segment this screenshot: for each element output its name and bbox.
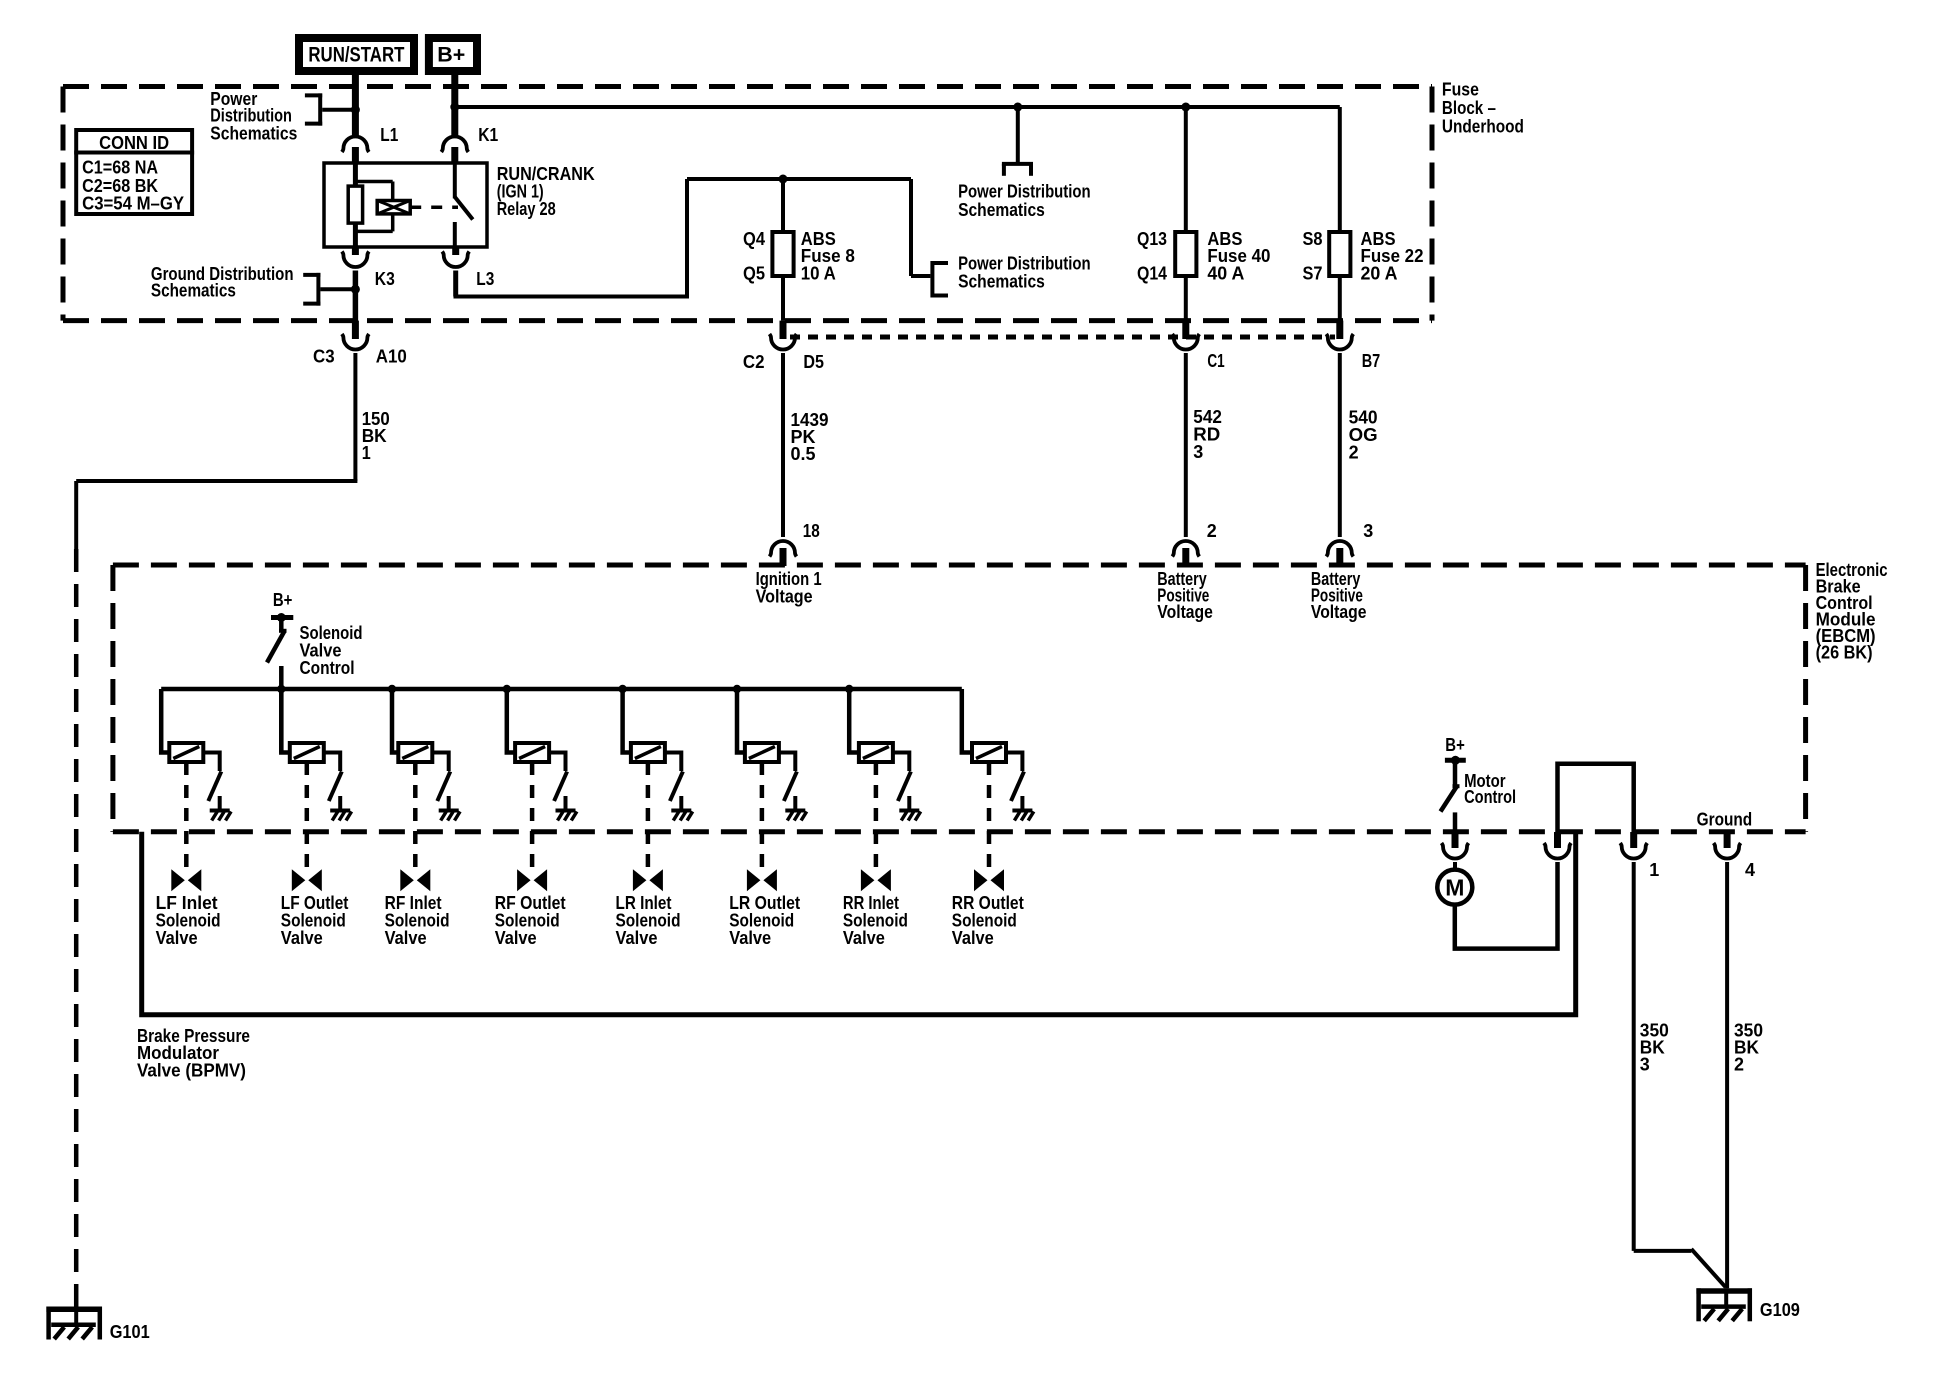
- wire dashed driver to LR-Outlet valve: [760, 762, 765, 869]
- svg-text:3: 3: [1363, 520, 1373, 541]
- node Battery Positive Voltage (pin 3): [1311, 568, 1367, 622]
- relay coil (box with X): [377, 201, 410, 214]
- wire circuit 540 OG 2: [1340, 353, 1378, 537]
- node bus junction x849: [845, 685, 853, 693]
- svg-text:2: 2: [1349, 442, 1359, 463]
- chassis ground LF-Outlet: [330, 796, 351, 821]
- svg-text:Voltage: Voltage: [1157, 601, 1213, 622]
- switch LR-Inlet driver to ground: [665, 753, 683, 802]
- svg-text:Schematics: Schematics: [151, 279, 236, 300]
- wire feed LF-Inlet driver: [161, 689, 169, 753]
- wire switch to bus: [279, 666, 284, 753]
- valve LR-Outlet solenoid valve symbol: [747, 869, 777, 891]
- svg-text:Relay 28: Relay 28: [497, 198, 556, 219]
- wire RUN/START to L1: [352, 75, 359, 136]
- svg-text:4: 4: [1745, 859, 1756, 880]
- svg-text:Schematics: Schematics: [210, 122, 297, 143]
- svg-text:G101: G101: [110, 1321, 150, 1342]
- svg-text:B+: B+: [273, 589, 293, 610]
- switch RR-Inlet driver to ground: [893, 753, 911, 802]
- valve LF-Inlet solenoid valve symbol: [171, 869, 201, 891]
- wire fuse22 to B7: [1338, 276, 1342, 321]
- svg-text:20 A: 20 A: [1361, 262, 1398, 283]
- node bus junction x506: [503, 685, 511, 693]
- connector EBCM pin 1: [1620, 832, 1659, 880]
- wire dashed driver to LF-Outlet valve: [305, 762, 310, 869]
- chassis ground LR-Outlet: [785, 796, 806, 821]
- switch RR-Outlet driver to ground: [1006, 753, 1024, 802]
- valve RR-Inlet solenoid valve symbol: [861, 869, 891, 891]
- wire dashed driver to RR-Outlet valve: [987, 762, 992, 869]
- fuse block label: [1442, 78, 1524, 136]
- svg-text:L1: L1: [380, 124, 398, 145]
- switch motor control: [1441, 763, 1517, 812]
- wire fuse40 to C1: [1184, 276, 1188, 321]
- wire dashed driver to RF-Outlet valve: [530, 762, 535, 869]
- node bus junction x281: [277, 685, 285, 693]
- svg-text:L3: L3: [476, 268, 494, 289]
- svg-text:B+: B+: [437, 44, 465, 67]
- relay switch contact: [455, 163, 473, 247]
- svg-text:Ground: Ground: [1697, 809, 1753, 830]
- connector L1: [342, 124, 398, 163]
- wire feed RR-Outlet driver: [962, 689, 972, 753]
- svg-text:C3=54 M–GY: C3=54 M–GY: [82, 193, 185, 214]
- svg-text:Voltage: Voltage: [756, 585, 813, 606]
- svg-text:1: 1: [1649, 859, 1659, 880]
- wire EBCM internal link motor return to pin 1: [1558, 764, 1634, 832]
- wire circuit 350 BK 2: [1727, 862, 1763, 1288]
- svg-text:40 A: 40 A: [1207, 262, 1244, 283]
- RUN/START feed box: [299, 38, 414, 71]
- svg-text:Underhood: Underhood: [1442, 115, 1524, 136]
- driver RR-Outlet solenoid (box with diagonal): [972, 743, 1006, 762]
- svg-text:10 A: 10 A: [801, 262, 836, 283]
- node Battery Positive Voltage (pin 2): [1157, 568, 1213, 622]
- svg-text:(26 BK): (26 BK): [1816, 641, 1873, 662]
- svg-text:C1: C1: [1207, 350, 1224, 371]
- wire feed RR-Inlet driver: [849, 689, 859, 753]
- B+ feed box: [429, 38, 477, 71]
- valve RF-Outlet solenoid valve symbol: [517, 869, 547, 891]
- relay label: [497, 163, 596, 219]
- connector EBCM pin 2: [1172, 520, 1216, 566]
- label RR-Outlet solenoid valve: [952, 892, 1024, 948]
- wire K3 to C3: [353, 271, 359, 340]
- wire feed LF-Outlet driver: [281, 689, 290, 753]
- wire feed LR-Inlet driver: [623, 689, 631, 753]
- wire motor return: [1455, 862, 1558, 949]
- svg-text:Valve: Valve: [385, 927, 427, 948]
- wire L3 to ABS fuse 8: [454, 179, 931, 299]
- EBCM module dashed border: [113, 565, 1806, 832]
- svg-text:Valve (BPMV): Valve (BPMV): [137, 1060, 246, 1081]
- wire dashed driver to RR-Inlet valve: [874, 762, 879, 869]
- connector C3/A10: [313, 321, 407, 367]
- node Ignition 1 Voltage: [756, 568, 822, 606]
- connector EBCM pin 4: [1714, 832, 1756, 880]
- BPMV label: [137, 1025, 250, 1081]
- svg-text:Valve: Valve: [843, 927, 885, 948]
- switch LF-Outlet driver to ground: [324, 753, 342, 802]
- svg-text:2: 2: [1734, 1054, 1744, 1075]
- bracket power distribution schematics left: [210, 88, 360, 143]
- svg-text:18: 18: [803, 520, 820, 541]
- bracket power distribution schematics right: [932, 252, 1090, 297]
- wire solenoid control bus: [161, 687, 962, 692]
- svg-text:Valve: Valve: [729, 927, 771, 948]
- node fuse 8 tap: [779, 175, 788, 184]
- wire feed RF-Outlet driver: [507, 689, 515, 753]
- valve LF-Outlet solenoid valve symbol: [292, 869, 322, 891]
- connector EBCM pin 18: [770, 520, 820, 566]
- svg-text:Q5: Q5: [743, 262, 765, 283]
- connector K1: [441, 124, 498, 163]
- wire dashed driver to RF-Inlet valve: [413, 762, 418, 869]
- connector EBCM pin 3: [1326, 520, 1373, 566]
- svg-text:Schematics: Schematics: [958, 270, 1045, 291]
- node bus junction x737: [733, 685, 741, 693]
- chassis ground LR-Inlet: [671, 796, 692, 821]
- driver LF-Inlet solenoid (box with diagonal): [169, 743, 203, 762]
- node fork tap: [1013, 103, 1022, 112]
- wire dashed driver to LF-Inlet valve: [184, 762, 189, 869]
- label RF-Inlet solenoid valve: [385, 892, 450, 948]
- relay coil branch wiring: [354, 163, 393, 247]
- driver LR-Inlet solenoid (box with diagonal): [631, 743, 665, 762]
- driver RR-Inlet solenoid (box with diagonal): [859, 743, 893, 762]
- fuse ABS Fuse 40 40A: [1137, 107, 1270, 283]
- wire top bus to fuses: [455, 105, 1340, 109]
- svg-text:K1: K1: [478, 124, 498, 145]
- switch LR-Outlet driver to ground: [779, 753, 797, 802]
- switch RF-Inlet driver to ground: [432, 753, 450, 802]
- B+ terminal motor control: [1445, 734, 1466, 765]
- valve LR-Inlet solenoid valve symbol: [633, 869, 663, 891]
- svg-text:Valve: Valve: [281, 927, 323, 948]
- svg-text:B+: B+: [1445, 734, 1465, 755]
- label RF-Outlet solenoid valve: [495, 892, 566, 948]
- svg-text:1: 1: [362, 442, 371, 463]
- switch RF-Outlet driver to ground: [549, 753, 567, 802]
- connector motor return: [1544, 832, 1571, 859]
- svg-text:S8: S8: [1303, 228, 1323, 249]
- svg-text:M: M: [1445, 875, 1464, 901]
- label RR-Inlet solenoid valve: [843, 892, 908, 948]
- connector C1 pin: [1172, 321, 1224, 372]
- wire circuit 350 BK 3: [1634, 862, 1726, 1287]
- svg-text:C3: C3: [313, 345, 335, 366]
- svg-text:D5: D5: [803, 351, 824, 372]
- svg-text:G109: G109: [1760, 1299, 1800, 1320]
- svg-text:CONN ID: CONN ID: [99, 132, 169, 153]
- svg-text:2: 2: [1207, 520, 1217, 541]
- label LF-Outlet solenoid valve: [281, 892, 349, 948]
- svg-text:Valve: Valve: [952, 927, 994, 948]
- fuse ABS Fuse 8 10A: [743, 228, 855, 283]
- node fuse 40 tap: [1181, 103, 1190, 112]
- relay actuator dashed link: [410, 205, 458, 209]
- valve RR-Outlet solenoid valve symbol: [974, 869, 1004, 891]
- svg-text:Q14: Q14: [1137, 262, 1168, 283]
- wire B+ to K1: [451, 75, 458, 136]
- svg-text:S7: S7: [1303, 262, 1323, 283]
- svg-text:B7: B7: [1362, 350, 1381, 371]
- connector C2/D5: [743, 321, 824, 372]
- relay RUN/CRANK (IGN 1) Relay 28 box: [324, 163, 487, 247]
- bracket ground distribution schematics: [151, 263, 360, 306]
- chassis ground LF-Inlet: [210, 796, 231, 821]
- connector K3: [342, 247, 395, 289]
- connector B7 pin: [1326, 321, 1380, 372]
- svg-text:C2: C2: [743, 351, 765, 372]
- driver RF-Outlet solenoid (box with diagonal): [515, 743, 549, 762]
- node bus junction x622: [618, 685, 626, 693]
- svg-text:Control: Control: [1464, 786, 1516, 807]
- chassis ground RR-Outlet: [1012, 796, 1033, 821]
- wire circuit 150 BK 1: [76, 353, 390, 1307]
- label LF-Inlet solenoid valve: [156, 892, 221, 948]
- svg-text:Valve: Valve: [616, 927, 658, 948]
- B+ terminal solenoid valve control: [271, 589, 293, 622]
- svg-text:3: 3: [1640, 1054, 1650, 1075]
- label LR-Outlet solenoid valve: [729, 892, 800, 948]
- fuse ABS Fuse 22 20A: [1303, 107, 1424, 283]
- chassis ground RF-Outlet: [556, 796, 577, 821]
- switch solenoid valve control: [267, 620, 363, 678]
- switch LF-Inlet driver to ground: [203, 753, 221, 802]
- driver LR-Outlet solenoid (box with diagonal): [745, 743, 779, 762]
- wire feed RF-Inlet driver: [392, 689, 398, 753]
- svg-text:Q4: Q4: [743, 228, 766, 249]
- svg-text:Schematics: Schematics: [958, 199, 1045, 220]
- CONN ID table: [74, 130, 194, 214]
- resistor relay coil suppression: [348, 186, 362, 223]
- label LR-Inlet solenoid valve: [616, 892, 681, 948]
- wire switch to motor connector: [1453, 812, 1458, 832]
- valve RF-Inlet solenoid valve symbol: [400, 869, 430, 891]
- ground G101: [46, 1307, 149, 1342]
- wire dashed driver to LR-Inlet valve: [646, 762, 651, 869]
- svg-text:K3: K3: [375, 268, 395, 289]
- dotted connector line C1: [790, 335, 1335, 340]
- wire fuse8 to C2: [781, 276, 785, 321]
- node bus junction x392: [388, 685, 396, 693]
- motor M: [1437, 862, 1472, 905]
- svg-text:A10: A10: [376, 345, 407, 366]
- svg-text:3: 3: [1193, 441, 1203, 462]
- svg-text:RUN/START: RUN/START: [308, 44, 404, 67]
- svg-text:0.5: 0.5: [791, 443, 816, 464]
- chassis ground RF-Inlet: [439, 796, 460, 821]
- wire feed LR-Outlet driver: [737, 689, 745, 753]
- driver LF-Outlet solenoid (box with diagonal): [290, 743, 324, 762]
- svg-text:Q13: Q13: [1137, 228, 1167, 249]
- node B+ bus junction: [450, 103, 459, 112]
- connector L3: [442, 247, 494, 289]
- wire tap to fuse 8: [781, 179, 785, 232]
- svg-text:Valve: Valve: [156, 927, 198, 948]
- driver RF-Inlet solenoid (box with diagonal): [398, 743, 432, 762]
- off-page fork to power distribution schematics: [958, 107, 1091, 220]
- chassis ground RR-Inlet: [899, 796, 920, 821]
- svg-text:Control: Control: [300, 657, 355, 678]
- fuse block underhood dashed border: [63, 87, 1432, 321]
- BPMV box: [142, 832, 1576, 1015]
- svg-text:Valve: Valve: [495, 927, 537, 948]
- wire circuit 542 RD 3: [1186, 353, 1222, 537]
- ground G109: [1696, 1288, 1800, 1321]
- svg-text:Voltage: Voltage: [1311, 601, 1367, 622]
- EBCM label: [1816, 559, 1888, 663]
- wire circuit 1439 PK 0.5: [783, 353, 829, 537]
- connector motor feed: [1442, 832, 1469, 859]
